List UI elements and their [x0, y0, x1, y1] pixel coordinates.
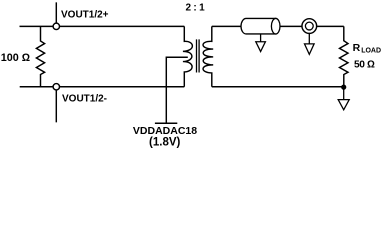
wire stub below node B: [55, 87, 57, 123]
wire top-left (VOUT1/2+ rail): [20, 25, 185, 27]
svg-text:VOUT1/2+: VOUT1/2+: [61, 10, 109, 21]
resistor 100 ohm: [36, 26, 44, 86]
svg-text:VOUT1/2-: VOUT1/2-: [62, 94, 107, 105]
coax cable body: [241, 18, 276, 33]
wire coax shield to ground: [260, 34, 262, 42]
svg-text:50 Ω: 50 Ω: [354, 59, 375, 70]
transformer T1 core: [197, 39, 200, 72]
transformer T1 secondary winding: [203, 26, 213, 86]
ground (connector): [305, 44, 315, 55]
svg-text:100 Ω: 100 Ω: [1, 52, 30, 64]
wire bottom-left (VOUT1/2- rail): [20, 86, 185, 88]
svg-text:VDDADAC18: VDDADAC18: [133, 125, 197, 137]
wire center tap to VDDADAC18: [166, 57, 188, 122]
power rail bar VDDADAC18: [155, 122, 177, 124]
coax cable right ellipse: [271, 18, 280, 33]
ground (coax shield): [256, 42, 266, 52]
wire connector to ground: [308, 33, 310, 43]
wire secondary top rail: [212, 25, 344, 27]
connector J1 inner circle: [305, 22, 313, 30]
wire RLOAD bottom to ground: [343, 87, 345, 99]
connector J1 outer circle: [302, 19, 317, 34]
junction dot at RLOAD bottom: [341, 85, 346, 90]
svg-text:(1.8V): (1.8V): [149, 136, 180, 148]
ground (load): [338, 100, 349, 110]
wire stub above node A: [55, 2, 57, 26]
node A (VOUT1/2+ junction): [53, 23, 59, 29]
node B (VOUT1/2- junction): [53, 84, 59, 90]
wire secondary bottom rail: [212, 86, 344, 88]
svg-text:2 : 1: 2 : 1: [185, 3, 205, 14]
resistor RLOAD 50 ohm: [340, 26, 349, 87]
transformer T1 primary winding: [183, 26, 192, 86]
